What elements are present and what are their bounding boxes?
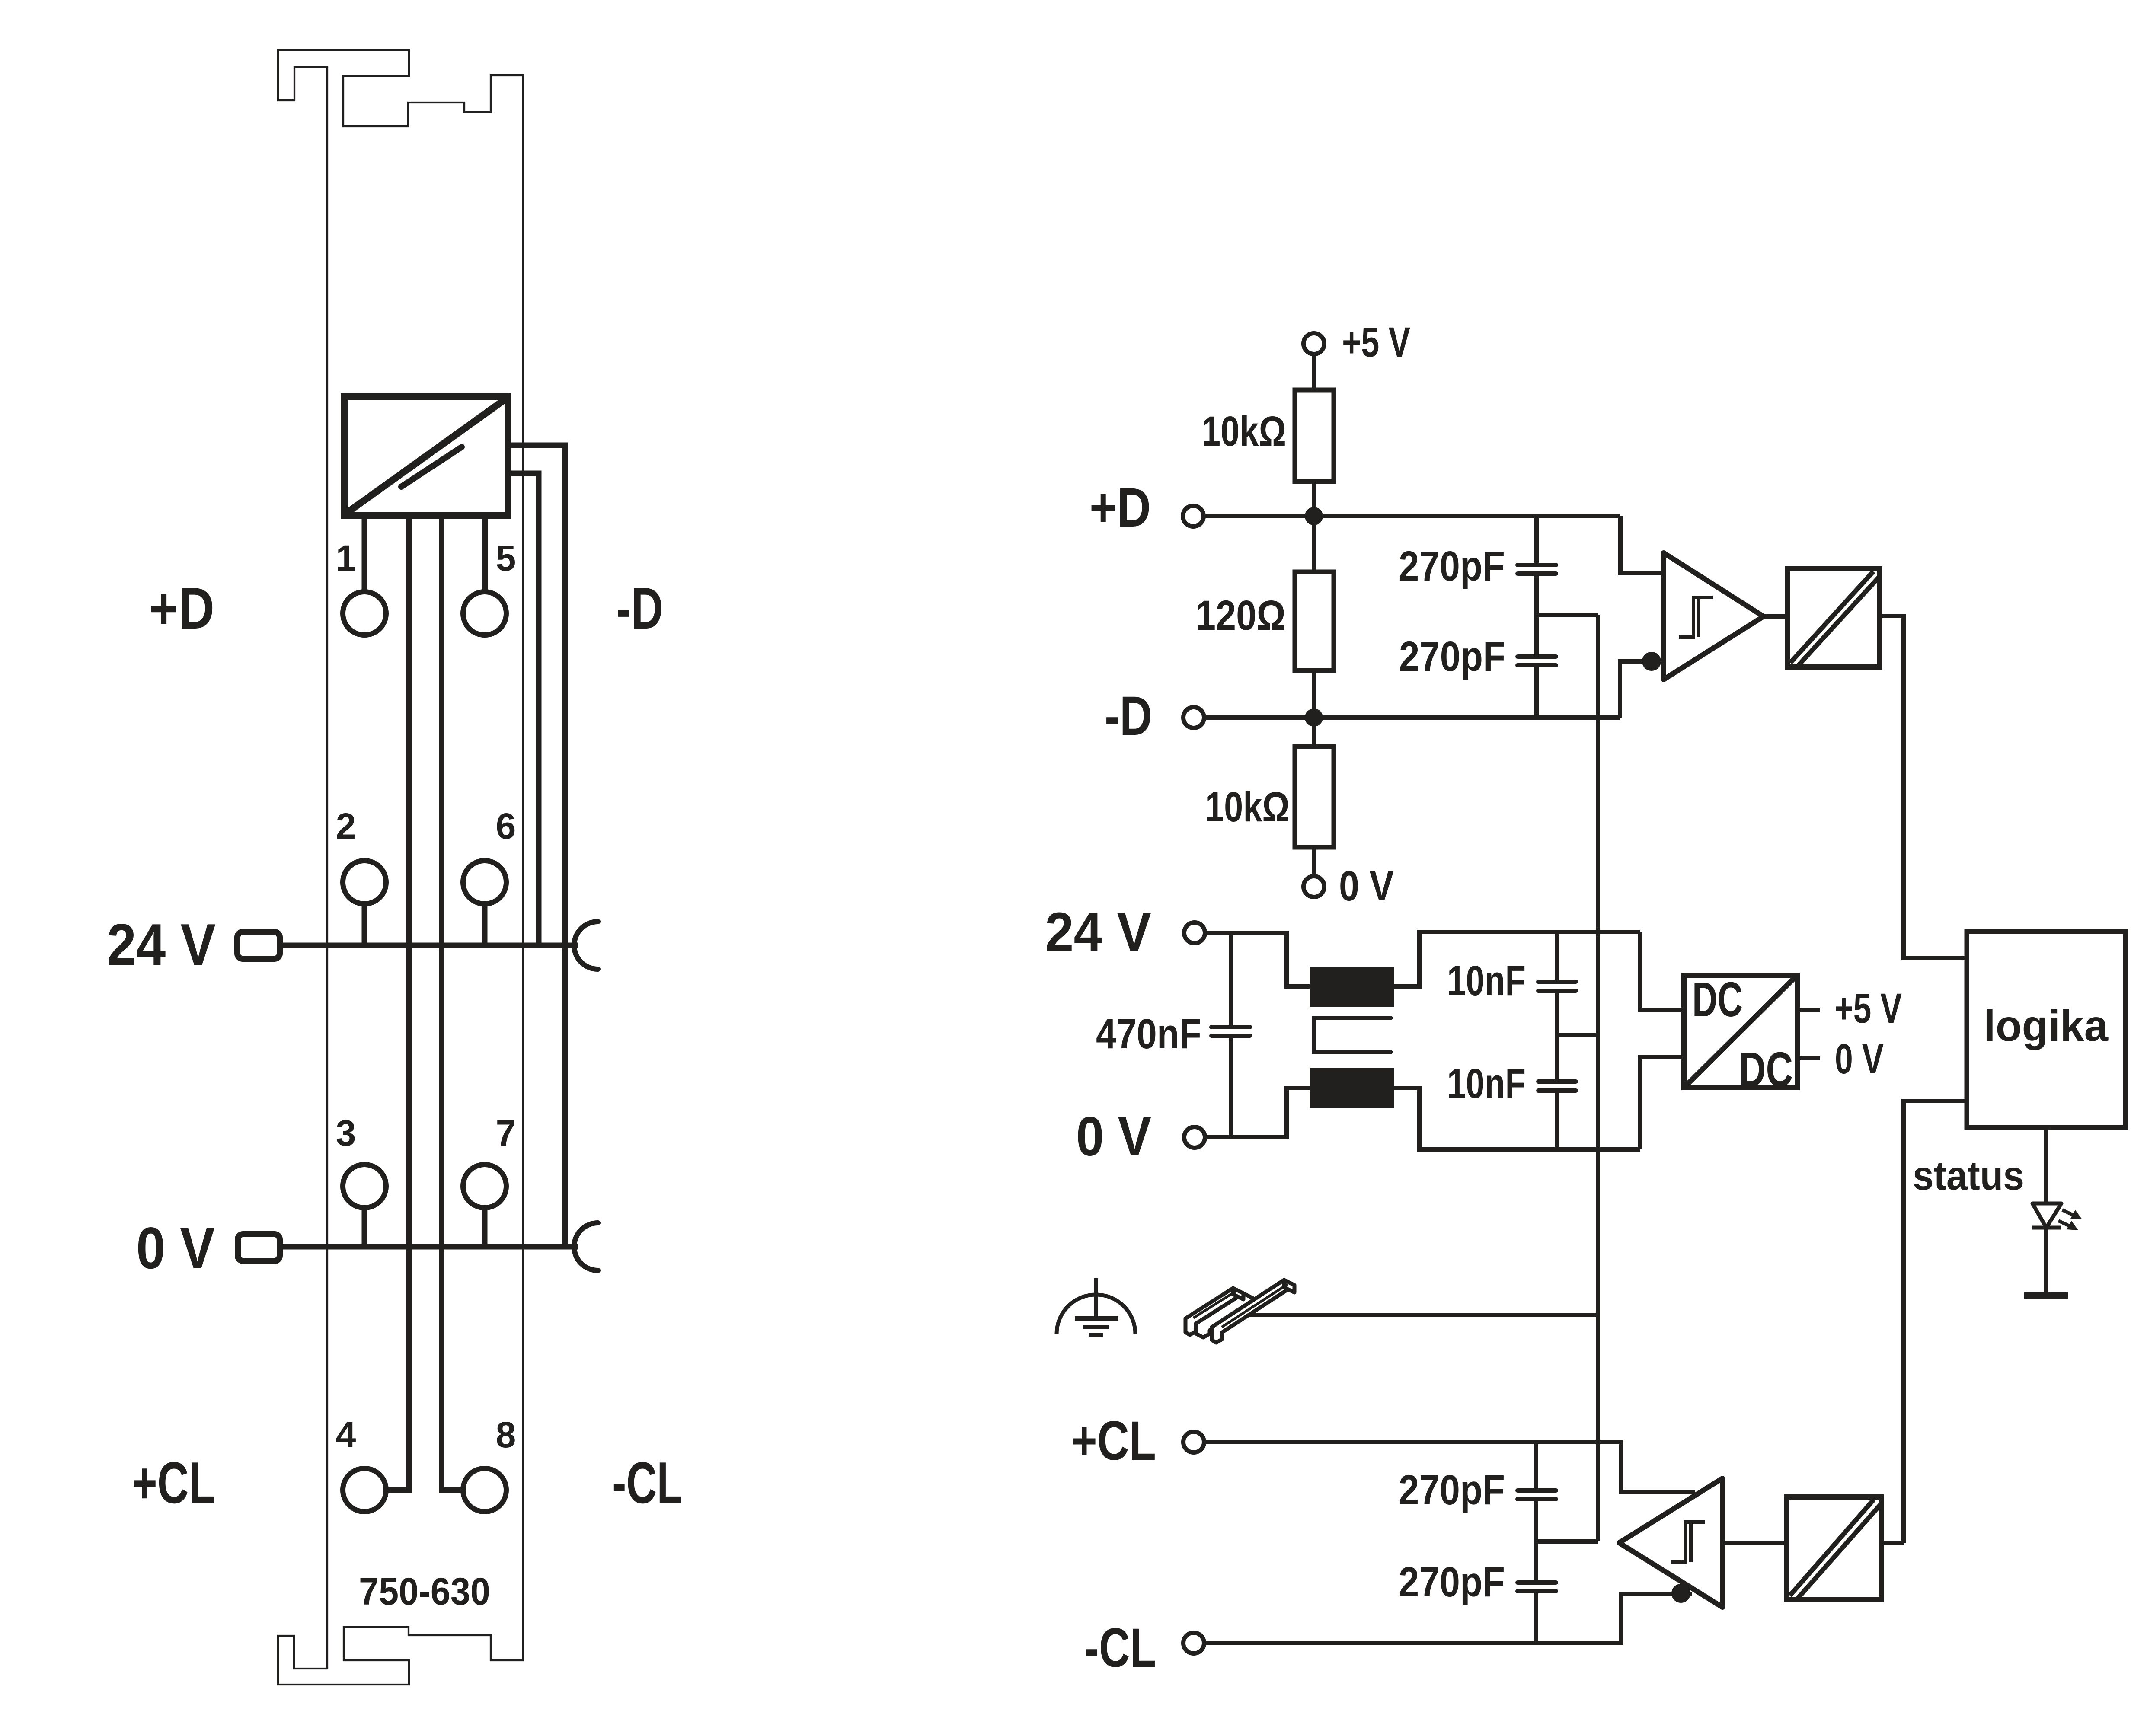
svg-text:7: 7 xyxy=(496,1113,516,1153)
svg-text:-D: -D xyxy=(1105,685,1152,747)
svg-text:0 V: 0 V xyxy=(1339,862,1394,909)
svg-text:8: 8 xyxy=(496,1414,516,1455)
svg-text:24 V: 24 V xyxy=(1045,901,1151,963)
svg-text:10kΩ: 10kΩ xyxy=(1201,408,1286,455)
svg-text:10nF: 10nF xyxy=(1447,1060,1526,1107)
svg-text:10kΩ: 10kΩ xyxy=(1205,783,1290,830)
svg-text:-CL: -CL xyxy=(612,1450,683,1516)
svg-text:270pF: 270pF xyxy=(1399,1558,1505,1605)
svg-text:+D: +D xyxy=(149,575,214,641)
svg-text:10nF: 10nF xyxy=(1447,957,1526,1004)
svg-text:470nF: 470nF xyxy=(1096,1010,1201,1057)
svg-text:DC: DC xyxy=(1692,972,1743,1027)
svg-text:120Ω: 120Ω xyxy=(1195,592,1286,639)
svg-text:3: 3 xyxy=(336,1113,356,1153)
svg-text:DC: DC xyxy=(1739,1042,1793,1097)
svg-text:0 V: 0 V xyxy=(136,1215,215,1281)
svg-text:4: 4 xyxy=(336,1414,356,1455)
svg-text:2: 2 xyxy=(336,806,356,846)
svg-text:0 V: 0 V xyxy=(1835,1035,1884,1082)
svg-text:270pF: 270pF xyxy=(1399,542,1505,590)
svg-text:+CL: +CL xyxy=(1071,1410,1156,1472)
svg-text:270pF: 270pF xyxy=(1399,633,1505,680)
svg-text:270pF: 270pF xyxy=(1399,1466,1505,1513)
svg-text:+CL: +CL xyxy=(132,1450,215,1516)
svg-text:logika: logika xyxy=(1984,1001,2109,1050)
svg-text:+5 V: +5 V xyxy=(1342,319,1410,366)
svg-text:0 V: 0 V xyxy=(1076,1106,1151,1168)
svg-text:+5 V: +5 V xyxy=(1834,985,1902,1032)
svg-text:5: 5 xyxy=(496,538,516,578)
svg-text:+D: +D xyxy=(1089,477,1151,539)
svg-text:status: status xyxy=(1913,1153,2024,1199)
svg-text:1: 1 xyxy=(336,538,356,578)
svg-text:6: 6 xyxy=(496,806,516,846)
svg-text:24 V: 24 V xyxy=(107,912,216,977)
svg-text:750-630: 750-630 xyxy=(359,1570,490,1613)
svg-text:-CL: -CL xyxy=(1085,1617,1156,1679)
svg-text:-D: -D xyxy=(617,575,663,641)
